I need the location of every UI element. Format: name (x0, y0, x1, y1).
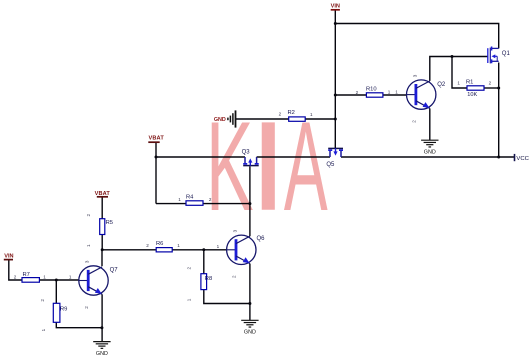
svg-text:R4: R4 (186, 194, 194, 200)
svg-text:A: A (284, 95, 328, 237)
svg-text:2: 2 (14, 274, 17, 279)
svg-text:1: 1 (217, 244, 220, 249)
power port VIN left (4, 254, 14, 260)
svg-text:GND: GND (244, 330, 256, 336)
wire R8 bottom to Q6 emitter (204, 290, 250, 304)
junction node VIN/top-rail (334, 22, 337, 25)
wire top rail from VIN to Q1 drain (335, 24, 498, 49)
resistor R2 (279, 110, 313, 122)
svg-text:2: 2 (412, 120, 417, 123)
resistor R8 (186, 267, 212, 302)
svg-text:2: 2 (232, 275, 237, 278)
resistor R6 (146, 241, 219, 252)
junction node R4/Q3 gate (248, 202, 251, 205)
wire R9 bottom to Q7 emitter (56, 322, 102, 327)
wire VIN vertical down to Q5 gate (334, 10, 336, 148)
power port VBAT upper (148, 136, 164, 143)
svg-text:1: 1 (177, 243, 180, 248)
svg-text:VBAT: VBAT (95, 191, 111, 197)
power port VIN top (331, 3, 340, 9)
junction node R5/rail2 (101, 248, 104, 251)
junction node R1/source (497, 87, 500, 90)
svg-text:R6: R6 (156, 241, 163, 247)
svg-text:1: 1 (41, 328, 46, 331)
svg-text:VIN: VIN (331, 3, 340, 9)
watermark KIA (206, 95, 328, 237)
wire VBAT drop down to R4 wire (155, 143, 157, 204)
svg-text:R10: R10 (366, 86, 377, 92)
wire Q7 collector up to R5 node (101, 250, 103, 266)
resistor R1 value 10K (457, 79, 491, 97)
svg-text:VBAT: VBAT (148, 136, 164, 142)
resistor R9 (40, 299, 67, 332)
svg-text:2: 2 (186, 267, 191, 270)
junction node R6/R8 (202, 248, 205, 251)
junction node R9/emitter (100, 326, 103, 329)
wire R1 pin2 to Q1 source line (484, 87, 499, 89)
svg-text:1: 1 (457, 81, 460, 86)
ground under Q6 (241, 320, 258, 327)
wire Q3 gate down through R4 node to Q6 collector (249, 166, 251, 236)
svg-text:3: 3 (85, 260, 90, 263)
svg-text:2: 2 (356, 90, 359, 95)
wire rail Q3 to Q5 (257, 156, 330, 158)
svg-text:3: 3 (412, 74, 417, 77)
transistor Q2 (407, 74, 446, 123)
ground under Q7 (93, 342, 110, 349)
wire VIN line to R10 to Q2 base (335, 94, 406, 96)
svg-text:R8: R8 (205, 276, 212, 282)
svg-text:VCC: VCC (516, 156, 529, 162)
wire R8 drop from R6 node (203, 250, 205, 274)
ground under Q2 (421, 140, 438, 147)
wire Q6 emitter down to ground (249, 264, 251, 321)
svg-text:Q5: Q5 (326, 162, 335, 168)
junction node gate/R1 (451, 55, 454, 58)
junction node VBAT/rail (155, 156, 158, 159)
junction node R7/R9 (55, 279, 58, 282)
svg-text:1: 1 (86, 244, 91, 247)
svg-text:1: 1 (395, 90, 398, 95)
wire GND port to R2 to VIN line (236, 118, 335, 120)
wire Q2 emitter down to ground (429, 108, 431, 140)
MOSFET Q1 (488, 47, 511, 64)
svg-text:2: 2 (86, 214, 91, 217)
svg-text:GND: GND (96, 351, 108, 357)
svg-text:R7: R7 (23, 272, 30, 278)
svg-text:Q2: Q2 (437, 82, 446, 88)
junction node VIN/R10 (334, 94, 337, 97)
svg-text:R1: R1 (466, 79, 473, 85)
wire Q7 emitter down to ground (101, 294, 103, 341)
resistor R5 (86, 214, 113, 248)
wire R9 drop from R7 node (55, 280, 57, 303)
svg-text:R9: R9 (60, 306, 67, 312)
svg-text:1: 1 (69, 274, 72, 279)
svg-text:Q1: Q1 (502, 51, 511, 57)
svg-text:1: 1 (178, 197, 181, 202)
power port VBAT lower (95, 191, 111, 197)
wire from gate net down to R1 pin1 (452, 57, 468, 89)
junction node rail/VCC (497, 156, 500, 159)
wire Q1 source down to VCC rail (498, 63, 500, 158)
svg-text:2: 2 (489, 81, 492, 86)
svg-text:VIN: VIN (4, 254, 13, 260)
svg-text:GND: GND (424, 150, 436, 156)
svg-text:10K: 10K (467, 92, 477, 98)
svg-text:1: 1 (43, 274, 46, 279)
svg-text:I: I (249, 96, 288, 237)
junction node R8/emitter (248, 302, 251, 305)
port VCC (515, 154, 530, 162)
svg-text:2: 2 (40, 299, 45, 302)
wire rail Q5 to VCC port (341, 156, 514, 158)
wire main rail VBAT to Q3 (156, 156, 245, 158)
svg-text:1: 1 (186, 298, 191, 301)
junction node VIN/R2 (334, 118, 337, 121)
svg-text:1: 1 (388, 90, 391, 95)
MOSFET Q5 (326, 148, 343, 168)
resistor R10 (356, 86, 399, 97)
wire R5 node to R6 to Q6 base (102, 249, 227, 251)
svg-text:K: K (206, 95, 254, 237)
transistor Q7 (79, 260, 118, 309)
resistor R4 (178, 194, 212, 205)
svg-text:2: 2 (84, 306, 89, 309)
wire VBAT2 down to R5 (101, 197, 103, 250)
wire Q2 collector up and right to Q1 gate (430, 57, 488, 81)
MOSFET Q3 (242, 149, 259, 165)
power port GND left (214, 110, 236, 127)
transistor Q6 (227, 229, 266, 278)
wire R4 horizontal (156, 203, 250, 205)
svg-text:R5: R5 (106, 220, 113, 226)
svg-text:2: 2 (146, 243, 149, 248)
svg-text:Q7: Q7 (110, 268, 119, 274)
resistor R7 (14, 272, 72, 282)
wire VIN2 down and right through R7 to Q7 base (9, 260, 79, 280)
